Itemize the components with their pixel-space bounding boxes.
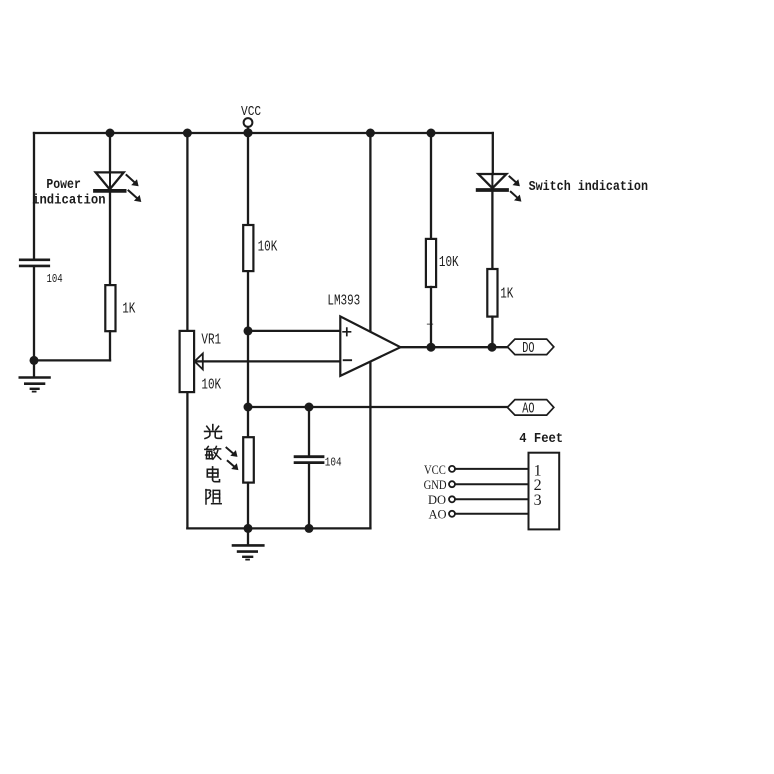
potentiometer VR1 [180, 331, 195, 392]
wire pin DO [455, 498, 529, 500]
capacitor C2 104 [295, 457, 323, 463]
pin 3 label (3) [534, 492, 542, 509]
flag AO [507, 400, 553, 416]
label 1K (R5) [500, 285, 513, 302]
LED D1 power indication [95, 172, 125, 191]
label 10K (R3) [258, 238, 278, 255]
label DO [522, 339, 534, 357]
VR1 wiper arrow [195, 354, 203, 370]
label 10K (R4) [439, 254, 459, 271]
label LM393 [327, 292, 360, 309]
wire plus input [248, 330, 340, 332]
svg-text:DO: DO [428, 493, 446, 507]
LED D2 arrow 1 [510, 177, 520, 187]
wire LDR bottom to ground [247, 483, 249, 529]
pin GND terminal circle [449, 481, 455, 487]
node output junction DO [488, 343, 497, 352]
node output junction R4 [427, 343, 436, 352]
wire left vertical (C1 bottom to ground node) [33, 267, 35, 360]
label min (敏) [205, 446, 221, 459]
label AO pin [429, 508, 447, 522]
node plus-input junction [244, 326, 253, 335]
flag DO [507, 339, 553, 355]
svg-text:AO: AO [429, 508, 447, 522]
label GND pin [424, 478, 447, 492]
node VCC terminal [244, 118, 253, 127]
node rail-VR1 junction [183, 129, 192, 138]
svg-text:1K: 1K [122, 300, 135, 317]
svg-text:3: 3 [534, 492, 542, 509]
wire VR1 bottom to ground rail [186, 392, 188, 528]
label 104 (C2) [325, 457, 342, 470]
svg-text:indication: indication [32, 192, 106, 208]
svg-text:VCC: VCC [424, 463, 446, 477]
label 1K (R2) [122, 300, 135, 317]
pin AO terminal circle [449, 511, 455, 517]
resistor R2 1K [105, 285, 115, 331]
LED D2 arrow 2 [511, 192, 522, 202]
wire LED D2 cathode to R5 [491, 191, 493, 269]
label Power indication [32, 176, 106, 208]
svg-text:104: 104 [325, 457, 342, 470]
wire top VCC rail [34, 132, 493, 134]
wire AO line [248, 406, 507, 408]
wire C2 bottom lead [308, 464, 310, 528]
wire pin VCC [455, 468, 529, 470]
ground GND2 [233, 528, 263, 559]
node rail junction x370 [366, 129, 375, 138]
wire LED1 cathode to R2 [109, 192, 111, 285]
op-amp U1 LM393 [340, 316, 400, 376]
LED D1 arrow 2 [129, 191, 142, 203]
pin VCC terminal circle [449, 466, 455, 472]
LED D2 switch indication [478, 174, 507, 190]
LED D1 arrow 1 [127, 175, 139, 186]
wire right branch down from rail [492, 133, 494, 174]
label Switch indication [529, 178, 648, 194]
wire center vertical (R3 bottom to LDR top) [247, 271, 249, 437]
label VCC pin [424, 463, 446, 477]
svg-text:104: 104 [47, 273, 63, 286]
svg-text:AO: AO [522, 400, 534, 418]
resistor R5 1K [487, 269, 497, 317]
svg-text:LM393: LM393 [327, 292, 360, 309]
wire opamp bypass vertical [369, 133, 371, 528]
svg-text:10K: 10K [201, 376, 221, 393]
svg-text:1K: 1K [500, 285, 513, 302]
wire pin GND [455, 483, 529, 485]
svg-text:Power: Power [46, 176, 80, 192]
node AO junction C2 top [305, 403, 314, 412]
wire center vertical (VCC to R3 top) [247, 127, 249, 225]
node rail junction R4 [427, 129, 436, 138]
svg-text:VR1: VR1 [201, 331, 221, 348]
svg-text:10K: 10K [258, 238, 278, 255]
wire LED1 anode (rail to LED) [109, 133, 111, 172]
LDR arrow 1 [227, 448, 238, 457]
photoresistor LDR [243, 437, 254, 482]
tick artifact on R4 wire [428, 323, 433, 325]
pin 1 label (1) [534, 462, 542, 479]
wire pin AO [455, 513, 529, 515]
wire R4 bottom to output [430, 287, 432, 347]
wire C2 top lead [308, 407, 310, 455]
wire left bottom (node to R2 bottom) [34, 359, 110, 361]
resistor R4 10K [426, 239, 436, 287]
node rail-LED1 junction [106, 129, 115, 138]
LDR arrow 2 [228, 461, 239, 470]
svg-text:VCC: VCC [241, 103, 261, 120]
svg-text:GND: GND [424, 478, 447, 492]
label 10K (VR1) [201, 376, 221, 393]
node AO junction center [244, 403, 253, 412]
pin 2 label (2) [534, 477, 542, 494]
node bottom junction C2 [305, 524, 314, 533]
capacitor C1 104 [20, 260, 49, 266]
wire R2 bottom [109, 331, 111, 360]
label VCC [241, 103, 261, 120]
wire minus input (from VR1 wiper) [197, 360, 340, 362]
label zu (阻) [206, 490, 221, 504]
label 104 (C1) [47, 273, 63, 286]
node rail-center junction [243, 128, 252, 137]
pin DO terminal circle [449, 496, 455, 502]
ground GND1 [20, 360, 50, 391]
wire R5 bottom to output [491, 317, 493, 348]
resistor R3 10K [243, 225, 253, 271]
svg-text:10K: 10K [439, 254, 459, 271]
label guang (光) [205, 425, 222, 439]
wire opamp output [400, 346, 507, 348]
label DO pin [428, 493, 446, 507]
wire VR1 top (rail down) [186, 133, 188, 331]
wire bottom ground rail [187, 527, 370, 529]
label dian (电) [207, 467, 219, 482]
svg-text:4 Feet: 4 Feet [519, 430, 563, 446]
label VR1 [201, 331, 221, 348]
svg-text:Switch indication: Switch indication [529, 178, 648, 194]
svg-text:DO: DO [522, 339, 534, 357]
label 4 Feet [519, 430, 563, 446]
node left ground junction [30, 356, 39, 365]
connector J1 body [529, 453, 560, 530]
label AO [522, 400, 534, 418]
wire R4 branch vertical top [430, 133, 432, 239]
node bottom center junction [244, 524, 253, 533]
wire left vertical (rail to C1 top) [33, 133, 35, 258]
